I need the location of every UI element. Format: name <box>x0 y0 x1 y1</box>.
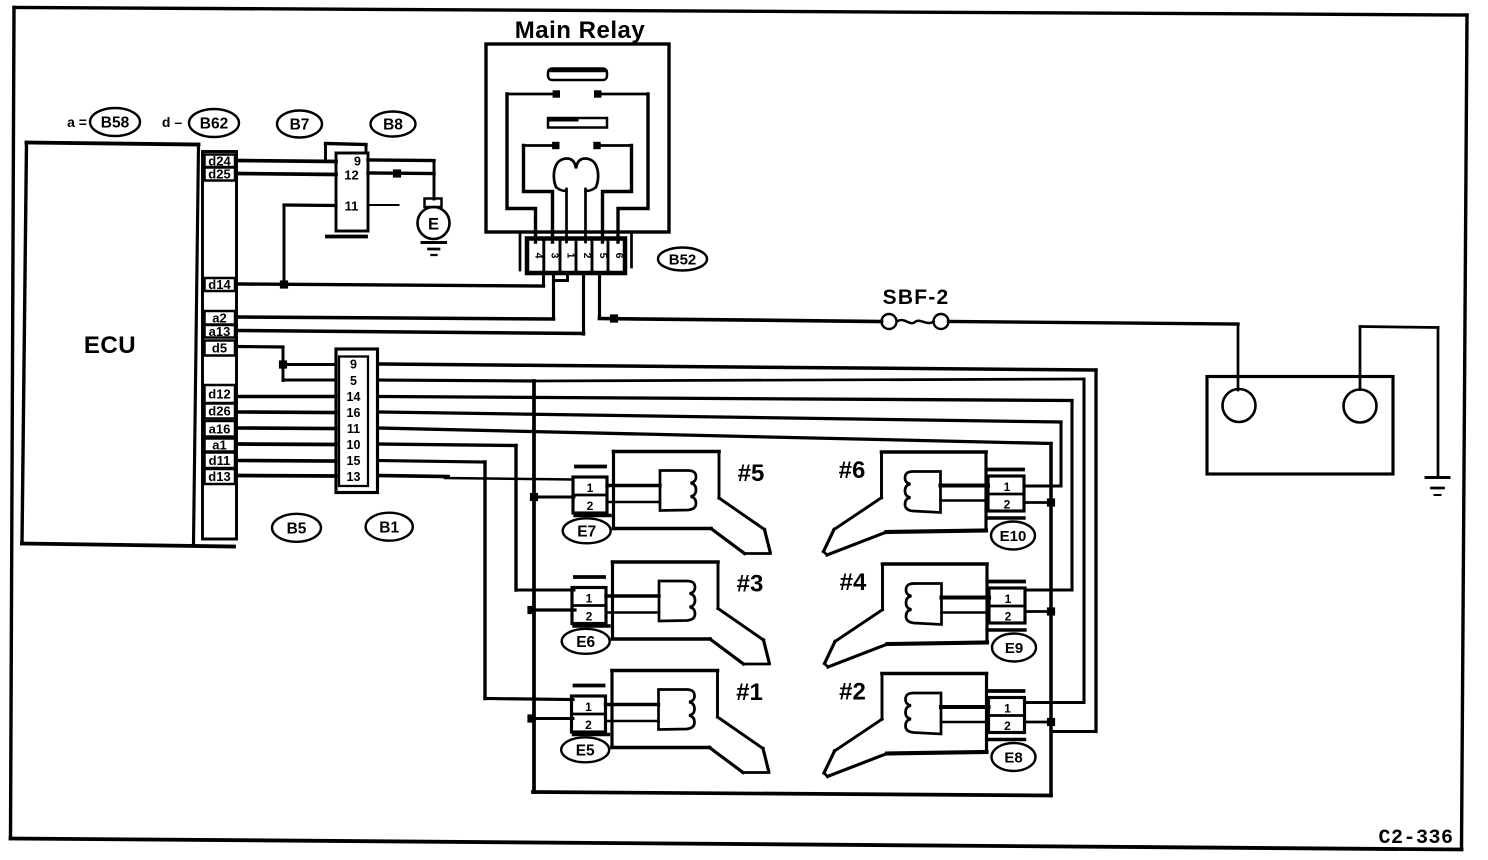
svg-text:#6: #6 <box>839 457 866 484</box>
svg-text:1: 1 <box>585 700 592 714</box>
svg-text:1: 1 <box>586 592 593 606</box>
svg-text:d12: d12 <box>208 387 230 402</box>
svg-text:#1: #1 <box>736 679 763 706</box>
svg-text:#5: #5 <box>738 460 765 487</box>
svg-text:E10: E10 <box>1000 528 1027 545</box>
svg-text:11: 11 <box>345 199 359 214</box>
svg-text:5: 5 <box>350 374 357 388</box>
svg-text:11: 11 <box>347 422 360 436</box>
svg-text:2: 2 <box>1004 719 1011 733</box>
svg-text:d5: d5 <box>212 341 227 356</box>
svg-text:ECU: ECU <box>84 332 136 359</box>
svg-text:3: 3 <box>549 253 561 259</box>
svg-text:9: 9 <box>354 155 361 169</box>
svg-text:d13: d13 <box>208 469 230 484</box>
svg-text:E5: E5 <box>576 742 595 759</box>
svg-text:E9: E9 <box>1005 640 1023 657</box>
svg-text:C2-336: C2-336 <box>1378 827 1453 850</box>
svg-text:E7: E7 <box>577 523 596 540</box>
svg-text:1: 1 <box>1005 592 1012 606</box>
svg-text:B58: B58 <box>101 115 130 132</box>
svg-text:2: 2 <box>1004 498 1011 512</box>
svg-text:B52: B52 <box>669 252 697 269</box>
svg-text:15: 15 <box>347 454 361 468</box>
svg-text:1: 1 <box>587 481 594 495</box>
svg-text:2: 2 <box>1005 610 1012 624</box>
svg-text:Main Relay: Main Relay <box>515 17 646 44</box>
svg-text:d25: d25 <box>208 167 230 182</box>
svg-text:E6: E6 <box>576 634 595 651</box>
svg-text:12: 12 <box>344 168 358 183</box>
svg-text:2: 2 <box>581 253 593 259</box>
svg-text:16: 16 <box>347 406 361 420</box>
svg-text:6: 6 <box>613 253 625 259</box>
svg-text:a16: a16 <box>209 421 231 436</box>
svg-text:a13: a13 <box>209 324 231 339</box>
svg-text:2: 2 <box>587 499 594 513</box>
svg-text:5: 5 <box>597 253 609 259</box>
svg-text:4: 4 <box>533 253 545 259</box>
svg-text:E8: E8 <box>1004 750 1022 767</box>
svg-text:#3: #3 <box>737 571 764 598</box>
svg-text:13: 13 <box>347 470 361 484</box>
svg-text:10: 10 <box>347 438 361 452</box>
svg-text:B7: B7 <box>290 117 310 134</box>
svg-text:9: 9 <box>350 358 357 372</box>
svg-text:14: 14 <box>347 390 361 404</box>
svg-text:B1: B1 <box>379 520 399 537</box>
svg-text:E: E <box>428 216 439 234</box>
svg-text:d11: d11 <box>209 453 231 468</box>
svg-text:a =: a = <box>67 114 87 130</box>
svg-text:B5: B5 <box>287 521 307 538</box>
svg-text:2: 2 <box>585 718 592 732</box>
svg-text:SBF-2: SBF-2 <box>883 286 950 309</box>
svg-text:B62: B62 <box>200 116 228 133</box>
svg-text:1: 1 <box>565 253 577 259</box>
svg-text:a1: a1 <box>212 438 226 453</box>
svg-text:B8: B8 <box>383 117 403 134</box>
svg-text:d26: d26 <box>208 404 230 419</box>
svg-text:d14: d14 <box>208 277 231 292</box>
svg-text:1: 1 <box>1004 702 1011 716</box>
svg-text:#4: #4 <box>840 569 867 596</box>
svg-text:1: 1 <box>1004 480 1011 494</box>
svg-text:#2: #2 <box>839 679 866 706</box>
svg-text:d –: d – <box>162 114 182 130</box>
svg-text:2: 2 <box>586 610 593 624</box>
